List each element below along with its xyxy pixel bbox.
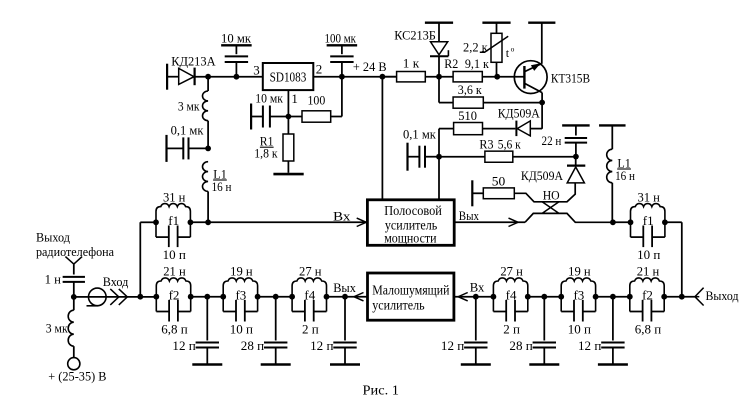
svg-text:f3: f3: [235, 287, 246, 302]
svg-text:Вход: Вход: [103, 274, 129, 289]
svg-text:100 мк: 100 мк: [325, 31, 357, 46]
svg-text:10 мк: 10 мк: [255, 91, 283, 106]
svg-text:12 п: 12 п: [441, 338, 464, 353]
svg-text:6,8 п: 6,8 п: [161, 321, 188, 336]
svg-text:10 мк: 10 мк: [221, 31, 252, 46]
svg-text:31 н: 31 н: [637, 189, 660, 204]
svg-text:12 п: 12 п: [310, 338, 333, 353]
svg-text:12 п: 12 п: [578, 338, 601, 353]
svg-text:28 п: 28 п: [509, 338, 532, 353]
svg-text:19 н: 19 н: [230, 264, 253, 279]
svg-text:16 н: 16 н: [615, 168, 635, 183]
svg-text:Малошумящий: Малошумящий: [372, 284, 450, 299]
svg-text:3: 3: [253, 63, 260, 78]
svg-text:КД213А: КД213А: [171, 53, 216, 68]
svg-text:Полосовой: Полосовой: [384, 204, 442, 219]
svg-text:2,2 к: 2,2 к: [463, 39, 488, 54]
svg-text:10 п: 10 п: [637, 247, 660, 262]
svg-text:10 п: 10 п: [568, 321, 591, 336]
svg-text:+ 24 В: + 24 В: [353, 59, 387, 74]
svg-text:6,8 п: 6,8 п: [635, 321, 662, 336]
svg-text:КД509А: КД509А: [521, 168, 564, 183]
svg-text:31 н: 31 н: [163, 189, 186, 204]
svg-text:R3: R3: [479, 137, 493, 152]
svg-text:f3: f3: [573, 287, 584, 302]
svg-text:1 к: 1 к: [403, 56, 420, 71]
svg-text:3 мк: 3 мк: [46, 321, 69, 336]
svg-text:радиотелефона: радиотелефона: [36, 244, 114, 259]
svg-text:SD1083: SD1083: [270, 69, 307, 84]
svg-text:2: 2: [316, 61, 323, 76]
svg-text:50: 50: [492, 174, 506, 189]
svg-text:21 н: 21 н: [163, 264, 186, 279]
svg-text:о: о: [511, 45, 515, 54]
svg-text:f1: f1: [643, 213, 654, 228]
svg-text:Вых: Вых: [459, 208, 480, 223]
svg-text:27 н: 27 н: [500, 264, 523, 279]
svg-text:3 мк: 3 мк: [178, 99, 200, 114]
svg-text:f2: f2: [169, 287, 180, 302]
svg-text:f2: f2: [642, 287, 653, 302]
svg-text:Вых: Вых: [333, 280, 356, 295]
svg-text:Выход: Выход: [706, 288, 739, 303]
svg-text:27 н: 27 н: [299, 264, 322, 279]
svg-text:5,6 к: 5,6 к: [498, 137, 522, 152]
svg-text:Вх: Вх: [333, 208, 351, 223]
svg-text:Вх: Вх: [470, 280, 485, 295]
svg-text:+ (25-35) В: + (25-35) В: [48, 369, 107, 384]
svg-text:1 н: 1 н: [45, 272, 61, 287]
svg-text:НО: НО: [543, 188, 560, 203]
svg-text:t: t: [506, 46, 510, 60]
svg-text:9,1 к: 9,1 к: [465, 56, 490, 71]
svg-text:10 п: 10 п: [230, 321, 253, 336]
svg-text:22 н: 22 н: [542, 133, 562, 148]
svg-text:12 п: 12 п: [172, 338, 195, 353]
svg-text:0,1 мк: 0,1 мк: [171, 123, 205, 138]
svg-text:2 п: 2 п: [302, 321, 319, 336]
svg-text:f1: f1: [168, 213, 179, 228]
svg-text:2 п: 2 п: [503, 321, 520, 336]
svg-text:КС213Б: КС213Б: [394, 27, 436, 42]
svg-text:100: 100: [308, 92, 326, 107]
svg-text:1: 1: [291, 91, 298, 106]
svg-text:Рис. 1: Рис. 1: [363, 384, 400, 399]
svg-text:1,8 к: 1,8 к: [254, 146, 278, 161]
svg-text:510: 510: [458, 108, 477, 123]
svg-text:усилитель: усилитель: [372, 299, 424, 314]
svg-text:16 н: 16 н: [212, 179, 232, 194]
svg-text:Выход: Выход: [36, 230, 70, 245]
svg-text:КД509А: КД509А: [498, 105, 541, 120]
svg-text:f4: f4: [506, 287, 517, 302]
svg-text:0,1 мк: 0,1 мк: [403, 127, 437, 142]
svg-text:R2: R2: [444, 56, 458, 71]
svg-text:19 н: 19 н: [568, 264, 591, 279]
svg-text:21 н: 21 н: [637, 264, 660, 279]
svg-text:3,6 к: 3,6 к: [458, 82, 483, 97]
svg-text:КТ315В: КТ315В: [551, 71, 590, 86]
svg-text:f4: f4: [304, 287, 315, 302]
svg-text:10 п: 10 п: [163, 247, 186, 262]
svg-text:мощности: мощности: [384, 231, 437, 246]
svg-text:28 п: 28 п: [241, 338, 264, 353]
